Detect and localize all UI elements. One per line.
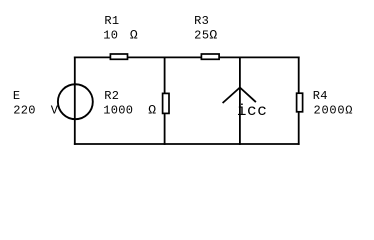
svg-text:V: V xyxy=(51,103,59,117)
svg-text:E: E xyxy=(13,89,21,103)
svg-text:10: 10 xyxy=(103,28,118,42)
svg-text:R3: R3 xyxy=(194,14,209,28)
svg-text:1000: 1000 xyxy=(103,103,133,117)
svg-text:R1: R1 xyxy=(104,14,119,28)
svg-text:25: 25 xyxy=(194,28,210,42)
svg-text:Ω: Ω xyxy=(130,27,138,42)
svg-text:Ω: Ω xyxy=(148,102,156,117)
svg-text:icc: icc xyxy=(237,102,267,120)
svg-text:2000Ω: 2000Ω xyxy=(314,103,354,117)
svg-text:R2: R2 xyxy=(104,89,119,103)
svg-text:Ω: Ω xyxy=(209,27,217,42)
svg-text:220: 220 xyxy=(13,103,36,117)
svg-text:R4: R4 xyxy=(313,89,328,103)
